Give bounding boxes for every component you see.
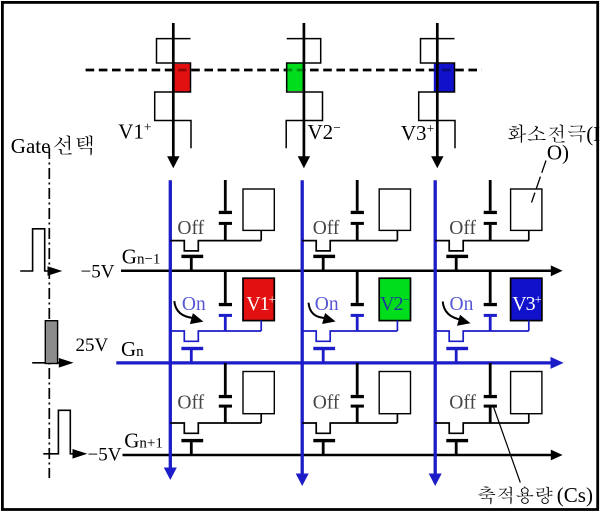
gate line Gn-1 bbox=[121, 270, 552, 273]
TFT transistor cell Gn-1 V2: source/channel bbox=[302, 241, 397, 251]
gate line Gn (selected, blue) bbox=[116, 361, 552, 364]
active gate pulse (gray) row Gn bbox=[45, 321, 57, 364]
TFT transistor cell Gn-1 V3: source/channel bbox=[435, 241, 529, 251]
pixel electrode stub cell Gn V2 bbox=[396, 321, 398, 331]
curved arrow to On TFT cell Gn V1 bbox=[174, 301, 203, 324]
storage capacitor Cs cell Gn-1 V2: bottom stub bbox=[356, 225, 359, 241]
label pixel electrode (ITO): line 1 화소전극(IT bbox=[508, 122, 600, 146]
pixel electrode (charged) V1+ cell Gn V1 bbox=[243, 278, 276, 320]
storage capacitor Cs cell Gn+1 V1: top plate bbox=[219, 395, 232, 398]
TFT gate electrode cell Gn+1 V2 bbox=[313, 439, 335, 442]
pixel electrode (ITO) cell Gn+1 V3 bbox=[511, 372, 542, 414]
data bus line column 3 (blue) bbox=[434, 180, 437, 475]
TFT gate stub cell Gn-1 V2 bbox=[322, 258, 325, 271]
leader line to pixel electrode bbox=[532, 161, 547, 203]
TFT gate stub cell Gn+1 V3 bbox=[455, 442, 458, 455]
TFT transistor cell Gn+1 V1: source/channel bbox=[170, 423, 261, 433]
TFT transistor cell Gn V3: source/channel bbox=[435, 331, 529, 341]
TFT gate stub cell Gn+1 V2 bbox=[322, 442, 325, 455]
svg-text:V1+: V1+ bbox=[118, 120, 151, 144]
arrowhead data bus column 2 bbox=[296, 474, 309, 487]
storage capacitor Cs cell Gn+1 V3: bottom stub bbox=[489, 407, 492, 423]
svg-text:O): O) bbox=[547, 141, 569, 165]
storage capacitor Cs cell Gn-1 V2: top stub bbox=[356, 180, 359, 211]
TFT transistor cell Gn V2: source/channel bbox=[302, 331, 397, 341]
storage capacitor Cs cell Gn+1 V3: top stub bbox=[489, 363, 492, 395]
TFT transistor cell Gn+1 V3: source/channel bbox=[435, 423, 529, 433]
pixel electrode (ITO) cell Gn-1 V2 bbox=[379, 189, 410, 230]
svg-text:Off: Off bbox=[449, 218, 476, 239]
svg-text:V3+: V3+ bbox=[401, 121, 434, 145]
storage capacitor Cs cell Gn V3: bottom stub bbox=[489, 317, 492, 331]
storage capacitor Cs cell Gn-1 V3: top plate bbox=[484, 211, 497, 214]
gate line Gn+1 bbox=[123, 454, 553, 457]
pixel electrode stub cell Gn+1 V2 bbox=[396, 414, 398, 423]
storage capacitor Cs cell Gn V2: bottom plate bbox=[351, 314, 364, 317]
data line column 3 (source line, top) bbox=[436, 23, 439, 158]
storage capacitor Cs cell Gn+1 V1: bottom plate bbox=[219, 405, 232, 408]
data line column 1 (source line, top) bbox=[172, 23, 175, 158]
storage capacitor Cs cell Gn-1 V2: bottom plate bbox=[351, 222, 364, 225]
data voltage pixel sample V2- color block bbox=[286, 63, 304, 91]
TFT gate electrode cell Gn V1 bbox=[181, 347, 203, 350]
arrowhead gate line Gn bbox=[551, 357, 564, 369]
svg-text:Gate: Gate bbox=[11, 134, 51, 158]
storage capacitor Cs cell Gn+1 V1: bottom stub bbox=[224, 407, 227, 423]
storage capacitor Cs cell Gn+1 V2: top stub bbox=[356, 363, 359, 395]
arrowhead gate pulse Gn bbox=[59, 358, 74, 368]
pixel electrode (ITO) cell Gn+1 V2 bbox=[379, 372, 410, 414]
svg-text:V2−: V2− bbox=[308, 120, 341, 144]
pixel electrode (ITO) cell Gn+1 V1 bbox=[243, 372, 274, 414]
data voltage pixel sample V1+ color block bbox=[174, 64, 192, 92]
arrowhead data bus column 1 bbox=[164, 468, 177, 481]
storage capacitor Cs cell Gn V1: bottom plate bbox=[219, 314, 232, 317]
leader line to storage capacitor bbox=[493, 406, 520, 483]
TFT gate stub cell Gn-1 V3 bbox=[455, 258, 458, 271]
arrowhead data bus column 3 bbox=[429, 474, 442, 487]
pixel electrode stub cell Gn-1 V3 bbox=[528, 230, 530, 240]
arrowhead gate pulse Gn-1 bbox=[48, 266, 63, 276]
svg-text:−5V: −5V bbox=[88, 444, 122, 465]
storage capacitor Cs cell Gn V1: bottom stub bbox=[224, 317, 227, 331]
arrowhead data line column 3 bbox=[431, 156, 443, 168]
storage capacitor Cs cell Gn+1 V1: top stub bbox=[224, 363, 227, 395]
curved arrow to On TFT cell Gn V3 bbox=[443, 302, 471, 326]
pixel electrode (ITO) cell Gn-1 V1 bbox=[243, 189, 274, 230]
pixel electrode stub cell Gn+1 V1 bbox=[260, 414, 262, 423]
TFT gate electrode cell Gn V2 bbox=[313, 347, 335, 350]
svg-text:Off: Off bbox=[177, 218, 204, 239]
svg-text:25V: 25V bbox=[76, 335, 109, 356]
storage capacitor Cs cell Gn-1 V3: bottom stub bbox=[489, 225, 492, 241]
svg-text:Off: Off bbox=[177, 393, 204, 414]
TFT transistor cell Gn-1 V1: source/channel bbox=[170, 241, 261, 251]
storage capacitor Cs cell Gn V2: top stub bbox=[356, 271, 359, 303]
svg-text:On: On bbox=[315, 294, 339, 315]
svg-text:Gn+1: Gn+1 bbox=[124, 428, 163, 452]
storage capacitor Cs cell Gn V3: bottom plate bbox=[484, 314, 497, 317]
pixel electrode stub cell Gn V1 bbox=[260, 321, 262, 331]
gate pulse waveform row Gn-1 bbox=[20, 229, 48, 271]
common electrode dashed line bbox=[86, 69, 482, 72]
pixel electrode (ITO) cell Gn-1 V3 bbox=[511, 189, 542, 230]
storage capacitor Cs cell Gn-1 V2: top plate bbox=[351, 211, 364, 214]
data signal square waveform column 3 bbox=[419, 39, 455, 149]
svg-text:Off: Off bbox=[313, 393, 340, 414]
arrowhead data line column 1 bbox=[167, 156, 179, 168]
TFT gate stub cell Gn V3 bbox=[455, 350, 458, 363]
data bus line column 1 (blue) bbox=[169, 180, 172, 469]
gate pulse waveform row Gn+1 bbox=[43, 410, 73, 454]
TFT gate stub cell Gn-1 V1 bbox=[190, 258, 193, 271]
arrowhead data line column 2 bbox=[298, 156, 310, 168]
TFT gate stub cell Gn+1 V1 bbox=[190, 442, 193, 455]
curved arrow to On TFT cell Gn V2 bbox=[309, 303, 336, 324]
data signal square waveform column 1 bbox=[155, 39, 191, 149]
svg-text:−5V: −5V bbox=[81, 261, 115, 282]
storage capacitor Cs cell Gn-1 V3: top stub bbox=[489, 180, 492, 211]
svg-text:Off: Off bbox=[449, 393, 476, 414]
storage capacitor Cs cell Gn-1 V1: bottom plate bbox=[219, 222, 232, 225]
TFT gate stub cell Gn V2 bbox=[322, 350, 325, 363]
storage capacitor Cs cell Gn-1 V3: bottom plate bbox=[484, 222, 497, 225]
svg-text:(Cs): (Cs) bbox=[557, 483, 593, 507]
pixel electrode (charged) V2− cell Gn V2 bbox=[379, 278, 410, 320]
data voltage pixel sample V3+ color block bbox=[434, 64, 455, 93]
TFT gate stub cell Gn V1 bbox=[190, 350, 193, 363]
TFT gate electrode cell Gn-1 V3 bbox=[446, 255, 468, 258]
svg-text:Off: Off bbox=[313, 218, 340, 239]
storage capacitor Cs cell Gn V2: bottom stub bbox=[356, 317, 359, 331]
storage capacitor Cs cell Gn V1: top stub bbox=[224, 271, 227, 303]
pixel electrode stub cell Gn-1 V1 bbox=[260, 230, 262, 240]
TFT gate electrode cell Gn+1 V3 bbox=[446, 439, 468, 442]
gate pulse baseline row Gn bbox=[32, 362, 60, 364]
storage capacitor Cs cell Gn+1 V3: bottom plate bbox=[484, 405, 497, 408]
storage capacitor Cs cell Gn-1 V1: top stub bbox=[224, 180, 227, 211]
svg-text:On: On bbox=[182, 294, 206, 315]
label Gate selection (Gate 선택) bbox=[11, 134, 92, 158]
TFT gate electrode cell Gn+1 V1 bbox=[181, 439, 203, 442]
TFT gate electrode cell Gn V3 bbox=[446, 347, 468, 350]
svg-text:Gn: Gn bbox=[121, 337, 144, 361]
gate scan dash-dot timeline bbox=[48, 148, 50, 478]
TFT transistor cell Gn V1: source/channel bbox=[170, 331, 261, 341]
svg-text:On: On bbox=[450, 294, 474, 315]
TFT gate electrode cell Gn-1 V2 bbox=[313, 255, 335, 258]
storage capacitor Cs cell Gn+1 V2: bottom stub bbox=[356, 407, 359, 423]
storage capacitor Cs cell Gn V2: top plate bbox=[351, 303, 364, 306]
arrowhead gate line Gn+1 bbox=[551, 450, 563, 461]
pixel electrode stub cell Gn+1 V3 bbox=[528, 414, 530, 423]
data bus line column 2 (blue) bbox=[301, 180, 304, 475]
pixel electrode (charged) V3+ cell Gn V3 bbox=[511, 278, 542, 320]
storage capacitor Cs cell Gn+1 V3: top plate bbox=[484, 395, 497, 398]
label storage capacitance 축적용량 (Cs) bbox=[478, 483, 593, 507]
arrowhead gate line Gn-1 bbox=[551, 265, 563, 276]
arrowhead gate pulse Gn+1 bbox=[73, 449, 88, 459]
TFT transistor cell Gn+1 V2: source/channel bbox=[302, 423, 397, 433]
pixel electrode stub cell Gn-1 V2 bbox=[396, 230, 398, 240]
storage capacitor Cs cell Gn+1 V2: bottom plate bbox=[351, 405, 364, 408]
storage capacitor Cs cell Gn+1 V2: top plate bbox=[351, 395, 364, 398]
pixel electrode stub cell Gn V3 bbox=[528, 321, 530, 331]
storage capacitor Cs cell Gn-1 V1: top plate bbox=[219, 211, 232, 214]
storage capacitor Cs cell Gn V3: top stub bbox=[489, 271, 492, 303]
storage capacitor Cs cell Gn-1 V1: bottom stub bbox=[224, 225, 227, 241]
TFT gate electrode cell Gn-1 V1 bbox=[181, 255, 203, 258]
storage capacitor Cs cell Gn V1: top plate bbox=[219, 303, 232, 306]
storage capacitor Cs cell Gn V3: top plate bbox=[484, 303, 497, 306]
data line column 2 (source line, top) bbox=[303, 23, 306, 158]
svg-text:Gn−1: Gn−1 bbox=[122, 245, 161, 269]
data signal square waveform column 2 bbox=[286, 39, 322, 149]
